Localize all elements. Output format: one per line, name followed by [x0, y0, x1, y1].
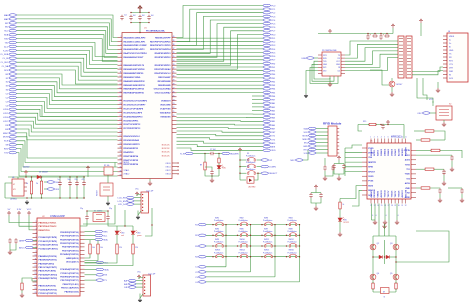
- svg-text:RA5/AN4/SS/C2OUT: RA5/AN4/SS/C2OUT: [124, 56, 145, 59]
- node PC1: [263, 8, 271, 11]
- power flag: [314, 185, 318, 189]
- svg-text:PB2/SS(PCINT2): PB2/SS(PCINT2): [39, 263, 55, 265]
- wire: [17, 27, 118, 50]
- svg-text:RC0/SOSCO/T1CKI/RP6: RC0/SOSCO/T1CKI/RP6: [124, 101, 148, 103]
- node TXD: [9, 151, 17, 154]
- pin: [394, 139, 396, 144]
- svg-text:PushButton: PushButton: [288, 241, 297, 244]
- pin: [373, 199, 375, 204]
- pin header row: [172, 162, 177, 164]
- wire: [33, 247, 37, 249]
- ground: [382, 224, 386, 228]
- svg-text:TVDD/4: TVDD/4: [384, 190, 387, 198]
- svg-text:29: 29: [394, 205, 396, 207]
- svg-text:XTAL2: XTAL2: [124, 173, 130, 176]
- svg-text:DVDD: DVDD: [368, 153, 374, 155]
- wire: [44, 181, 47, 183]
- resistor R25: [372, 282, 374, 290]
- pin 25: [172, 96, 177, 98]
- svg-text:RD4/RP23: RD4/RP23: [124, 151, 135, 154]
- svg-text:RE3/MCLR/VPP: RE3/MCLR/VPP: [155, 37, 171, 39]
- svg-text:AUX1: AUX1: [405, 154, 410, 157]
- wire: [311, 192, 321, 194]
- junction: [387, 124, 388, 125]
- svg-text:PushButton: PushButton: [246, 155, 255, 158]
- wire: [339, 221, 341, 232]
- svg-text:LCD4: LCD4: [3, 109, 9, 111]
- junction: [177, 170, 178, 171]
- wire: [59, 186, 61, 198]
- node C4: [9, 104, 17, 107]
- pin pair: [399, 38, 411, 40]
- svg-text:PD0/RXD(PCINT16): PD0/RXD(PCINT16): [60, 232, 79, 234]
- wire: [312, 64, 334, 81]
- svg-text:RA2/AN2/VREF-/CVREF: RA2/AN2/VREF-/CVREF: [124, 44, 148, 47]
- pin row: [33, 240, 38, 242]
- svg-text:MISO: MISO: [368, 190, 373, 192]
- svg-text:RE0/RD/AN5: RE0/RD/AN5: [158, 84, 171, 87]
- wire: [76, 177, 78, 181]
- svg-text:PC5/SCL(PCINT13): PC5/SCL(PCINT13): [39, 293, 57, 295]
- pushbutton SW14: [240, 256, 241, 258]
- svg-text:39: 39: [173, 40, 175, 42]
- svg-text:1u: 1u: [58, 179, 60, 181]
- node PE2: [263, 69, 271, 72]
- wire: [41, 177, 43, 180]
- junction: [257, 173, 258, 174]
- wire: [134, 197, 141, 199]
- pin: [377, 199, 379, 204]
- wire: [177, 84, 264, 86]
- pin 18: [172, 123, 177, 125]
- pin: [80, 268, 85, 270]
- svg-text:OSC1/CLKI/RA7: OSC1/CLKI/RA7: [155, 92, 172, 95]
- capacitor C12: [75, 181, 78, 187]
- svg-text:PL2303TA USB: PL2303TA USB: [322, 49, 337, 52]
- svg-text:C7 104: C7 104: [210, 149, 216, 151]
- node K_R1: [9, 49, 17, 52]
- pin: [318, 66, 345, 68]
- wire: [334, 169, 344, 174]
- pin: [405, 199, 407, 204]
- pin: [411, 187, 416, 189]
- capacitor C33: [319, 193, 322, 199]
- capacitor C23: [323, 165, 326, 171]
- wire: [132, 226, 134, 231]
- wire: [17, 105, 118, 116]
- pushbutton SW13: [216, 256, 217, 258]
- pin: [443, 77, 447, 79]
- wire: [137, 195, 141, 197]
- wire: [113, 225, 133, 227]
- svg-text:PushButton: PushButton: [239, 230, 248, 233]
- wire: [85, 274, 97, 276]
- pin 22: [172, 108, 177, 110]
- junction: [274, 256, 275, 257]
- pin 24: [118, 123, 123, 125]
- pin 21: [118, 112, 123, 114]
- svg-text:RD3/SS2/RP22: RD3/SS2/RP22: [124, 148, 139, 150]
- crystal X2: [436, 106, 452, 120]
- svg-text:OSC: OSC: [417, 113, 422, 115]
- svg-text:PushButton: PushButton: [214, 230, 223, 233]
- svg-text:1: 1: [370, 137, 371, 139]
- svg-text:SVDD: SVDD: [368, 176, 374, 178]
- pin 10: [118, 68, 123, 70]
- svg-text:RE2/CS/AN7: RE2/CS/AN7: [158, 76, 171, 79]
- pin: [411, 164, 416, 166]
- crystal X1: [93, 213, 105, 222]
- svg-text:C4: C4: [124, 15, 126, 17]
- node MOSI: [9, 136, 17, 139]
- svg-text:NC/ICCK: NC/ICCK: [162, 155, 171, 157]
- svg-text:PC5/SCL(PCINT13): PC5/SCL(PCINT13): [60, 273, 78, 275]
- svg-text:35: 35: [173, 56, 175, 58]
- svg-text:RD4/PSP4/RP23: RD4/PSP4/RP23: [155, 52, 172, 55]
- wire: [140, 294, 143, 299]
- wire: [372, 236, 374, 292]
- pin 17: [118, 96, 123, 98]
- node MISO: [9, 132, 17, 135]
- junction: [31, 197, 32, 198]
- transistor Q4: [370, 274, 376, 280]
- svg-text:TX2: TX2: [406, 178, 409, 180]
- pin: [362, 156, 367, 158]
- capacitor C7: [209, 152, 215, 155]
- pin 16: [172, 131, 177, 133]
- wire: [338, 160, 340, 164]
- pin 28: [172, 84, 177, 86]
- svg-text:37: 37: [120, 174, 122, 176]
- svg-text:7: 7: [391, 137, 392, 139]
- ground: [442, 122, 446, 126]
- pushbutton SW9: [216, 245, 217, 247]
- svg-text:18: 18: [120, 99, 122, 101]
- ground: [148, 181, 152, 185]
- capacitor C32: [309, 193, 312, 199]
- junction: [83, 176, 84, 177]
- svg-text:EN: EN: [5, 129, 8, 131]
- junction: [139, 22, 140, 23]
- capacitor C20: [366, 34, 369, 40]
- svg-text:PD1/TXD(PCINT17): PD1/TXD(PCINT17): [60, 236, 78, 238]
- svg-text:7: 7: [120, 56, 121, 58]
- junction: [148, 22, 149, 23]
- svg-text:DTR: DTR: [449, 67, 454, 69]
- junction: [31, 176, 32, 177]
- svg-text:DSR: DSR: [449, 71, 454, 73]
- junction: [212, 245, 213, 246]
- keypad column wire: [225, 225, 227, 267]
- svg-text:PB1/OC1A(PCINT1): PB1/OC1A(PCINT1): [39, 266, 58, 269]
- ground: [20, 293, 24, 297]
- wire: [134, 203, 141, 205]
- capacitor C21: [379, 34, 382, 40]
- pushbutton S2: [248, 166, 249, 168]
- ground: [138, 298, 142, 302]
- svg-text:16: 16: [120, 91, 122, 93]
- wire: [17, 31, 118, 54]
- pin 14: [118, 84, 123, 86]
- node MISO: [308, 138, 316, 141]
- pin 16: [118, 92, 123, 94]
- capacitor C15: [8, 238, 11, 244]
- keypad column bus: [206, 281, 300, 283]
- svg-text:RESET/PC6: RESET/PC6: [39, 230, 51, 232]
- wire: [240, 179, 246, 181]
- wire: [17, 90, 118, 101]
- wire: [177, 81, 264, 83]
- svg-text:GND: GND: [323, 64, 328, 66]
- node PA0: [263, 102, 271, 105]
- wire: [17, 43, 118, 57]
- node 5V0: [47, 181, 55, 184]
- wire: [85, 269, 97, 271]
- node ROW3: [198, 245, 206, 248]
- node PE0: [263, 62, 271, 65]
- svg-text:PB4/MISO(PCINT4): PB4/MISO(PCINT4): [39, 255, 57, 258]
- wire: [412, 67, 443, 72]
- ground: [328, 82, 332, 86]
- resistor R3: [41, 180, 43, 195]
- wire: [17, 39, 118, 62]
- junction: [374, 33, 375, 34]
- junction: [211, 175, 212, 176]
- svg-text:0: 0: [386, 215, 387, 217]
- svg-text:PB5/SCK(PCINT5): PB5/SCK(PCINT5): [39, 286, 56, 288]
- svg-text:PushButton: PushButton: [214, 241, 223, 244]
- wire: [451, 161, 453, 167]
- svg-text:ALE/AS: ALE/AS: [397, 148, 400, 156]
- pin pair: [399, 44, 411, 46]
- svg-text:33: 33: [173, 64, 175, 66]
- junction: [286, 245, 287, 246]
- svg-text:RB7/KBI3/PGD/RP35: RB7/KBI3/PGD/RP35: [124, 93, 145, 95]
- wire: [252, 110, 263, 112]
- wire: [461, 187, 463, 189]
- svg-text:DCD: DCD: [449, 78, 454, 80]
- node ROW4: [198, 255, 206, 258]
- svg-text:RFID Module: RFID Module: [323, 122, 342, 126]
- wire: [17, 50, 118, 64]
- connector J6: [447, 33, 468, 82]
- keypad column bus: [206, 276, 275, 278]
- wire: [177, 128, 264, 129]
- wire: [338, 174, 340, 176]
- svg-text:9: 9: [398, 137, 399, 139]
- wire: [374, 204, 376, 221]
- ground: [210, 178, 214, 182]
- pin pair: [399, 64, 411, 66]
- svg-text:24: 24: [120, 123, 122, 125]
- wire: [177, 13, 264, 46]
- pin: [318, 73, 345, 75]
- capacitor C11: [68, 181, 71, 187]
- svg-text:VBUS: VBUS: [449, 36, 455, 38]
- node PB1: [263, 77, 271, 80]
- wire: [177, 16, 264, 49]
- node COL4: [198, 281, 206, 284]
- pin pair: [399, 61, 411, 63]
- keypad column bus: [206, 271, 251, 273]
- pin 36: [172, 52, 177, 54]
- pin: [387, 139, 389, 144]
- svg-text:LCD_RS: LCD_RS: [118, 198, 127, 200]
- svg-text:RC1/SOSCI/CCP2/RP7: RC1/SOSCI/CCP2/RP7: [124, 105, 147, 107]
- node PB7: [263, 98, 271, 101]
- pin: [443, 42, 447, 44]
- connector J4 header: [398, 36, 404, 78]
- capacitor C25: [381, 124, 384, 130]
- wire: [17, 153, 118, 176]
- wire: [306, 71, 318, 94]
- junction: [144, 280, 145, 281]
- svg-text:11: 11: [120, 72, 122, 74]
- node SS: [9, 143, 17, 146]
- wire: [345, 51, 398, 64]
- svg-text:2: 2: [120, 36, 121, 38]
- svg-text:220: 220: [119, 247, 122, 249]
- pin header row: [172, 169, 177, 171]
- svg-text:3V3: 3V3: [323, 67, 326, 69]
- node RES: [95, 230, 103, 233]
- svg-text:AVCC(ADC7): AVCC(ADC7): [66, 261, 79, 264]
- power flag VCC: [238, 148, 242, 152]
- junction: [250, 235, 251, 236]
- wire: [139, 278, 143, 280]
- svg-text:29: 29: [173, 80, 175, 82]
- wire: [76, 186, 78, 198]
- svg-text:BUZZER: BUZZER: [230, 153, 239, 155]
- junction: [144, 293, 145, 294]
- svg-text:RC5/SDO/RP11: RC5/SDO/RP11: [124, 120, 140, 122]
- node LCD1: [126, 200, 134, 203]
- svg-text:36: 36: [173, 52, 175, 54]
- node TX: [96, 279, 104, 282]
- svg-text:RB0/AN12/INT0/FLT0: RB0/AN12/INT0/FLT0: [124, 64, 145, 67]
- wire: [395, 236, 397, 292]
- svg-text:RES: RES: [103, 231, 108, 233]
- junction: [395, 256, 396, 257]
- pin 7: [118, 56, 123, 58]
- wire: [339, 199, 341, 202]
- svg-text:23: 23: [173, 103, 175, 105]
- svg-text:14: 14: [120, 84, 122, 86]
- svg-text:20: 20: [120, 107, 122, 109]
- pin 9: [118, 64, 123, 66]
- svg-text:OSCIN: OSCIN: [404, 150, 411, 152]
- wire: [340, 186, 362, 199]
- svg-text:RA1/AN1/C12IN1-/RP1: RA1/AN1/C12IN1-/RP1: [124, 40, 147, 43]
- pin: [401, 139, 403, 144]
- capacitor C30: [332, 164, 335, 170]
- button RESET: [100, 183, 113, 196]
- wire: [310, 67, 338, 83]
- svg-text:1k: 1k: [343, 204, 345, 206]
- junction: [107, 210, 108, 211]
- wire: [314, 61, 330, 79]
- pin: [362, 189, 367, 191]
- svg-text:32: 32: [173, 68, 175, 70]
- resistor R1: [104, 167, 113, 175]
- junction: [142, 204, 143, 205]
- pin 40: [172, 37, 177, 39]
- RFID IC U5: [367, 143, 411, 199]
- svg-text:4: 4: [381, 137, 382, 139]
- wire: [25, 175, 27, 178]
- svg-text:RB1/AN10/INT1/RP28: RB1/AN10/INT1/RP28: [124, 68, 146, 71]
- node LCD5: [9, 112, 17, 115]
- node PA2: [263, 109, 271, 112]
- svg-text:3: 3: [35, 229, 36, 231]
- svg-text:U6: U6: [12, 177, 14, 179]
- svg-text:RD3/PSP3/RP22: RD3/PSP3/RP22: [155, 57, 172, 59]
- svg-text:4: 4: [35, 232, 36, 234]
- node MA2: [9, 18, 17, 21]
- resistor R8: [21, 282, 23, 291]
- pin: [337, 128, 339, 130]
- svg-text:PIC18F46K22-I/ML: PIC18F46K22-I/ML: [146, 30, 166, 33]
- pin 33: [172, 64, 177, 66]
- svg-text:0: 0: [376, 215, 377, 217]
- wire: [420, 23, 422, 36]
- svg-text:12V/5V: 12V/5V: [23, 167, 30, 169]
- svg-text:green: green: [137, 234, 141, 237]
- svg-text:Q4: Q4: [377, 273, 380, 275]
- pin row: [33, 277, 38, 279]
- wire: [177, 6, 264, 38]
- microcontroller U2: [37, 218, 80, 296]
- svg-text:10: 10: [401, 137, 403, 139]
- pin row: [33, 244, 38, 246]
- pin: [443, 35, 447, 37]
- svg-text:10: 10: [35, 255, 37, 257]
- svg-text:X1 16MHz: X1 16MHz: [94, 210, 102, 212]
- node A_D: [9, 45, 17, 48]
- svg-text:TX1: TX1: [406, 169, 409, 171]
- svg-text:RC7/RX/DT/RP13: RC7/RX/DT/RP13: [124, 128, 142, 130]
- svg-text:AVSS: AVSS: [405, 182, 411, 185]
- wire: [89, 240, 91, 243]
- svg-text:470: 470: [82, 179, 85, 181]
- pin row: [33, 233, 38, 235]
- junction: [367, 33, 368, 34]
- wire: [396, 231, 449, 262]
- svg-text:PushButton: PushButton: [263, 241, 272, 244]
- resistor R3: [89, 243, 91, 255]
- capacitor C19: [372, 34, 378, 37]
- svg-text:VMID: VMID: [405, 188, 410, 190]
- svg-text:LCD7: LCD7: [3, 121, 9, 123]
- junction: [299, 245, 300, 246]
- svg-text:RE1/WR/AN6: RE1/WR/AN6: [158, 80, 172, 83]
- pin row: [33, 289, 38, 291]
- wire: [316, 138, 328, 140]
- wire: [10, 244, 16, 250]
- junction: [225, 235, 226, 236]
- svg-text:RST: RST: [271, 132, 276, 134]
- pin 35: [118, 167, 123, 169]
- wire: [29, 216, 33, 230]
- wire: [83, 205, 115, 224]
- pin: [443, 63, 447, 65]
- svg-text:30: 30: [173, 76, 175, 78]
- junction: [144, 283, 145, 284]
- svg-text:RA3/AN3/VREF+/RP3: RA3/AN3/VREF+/RP3: [124, 48, 146, 51]
- svg-text:104: 104: [151, 15, 154, 17]
- node CL_SUB: [9, 53, 17, 56]
- svg-text:K_R1: K_R1: [3, 50, 9, 52]
